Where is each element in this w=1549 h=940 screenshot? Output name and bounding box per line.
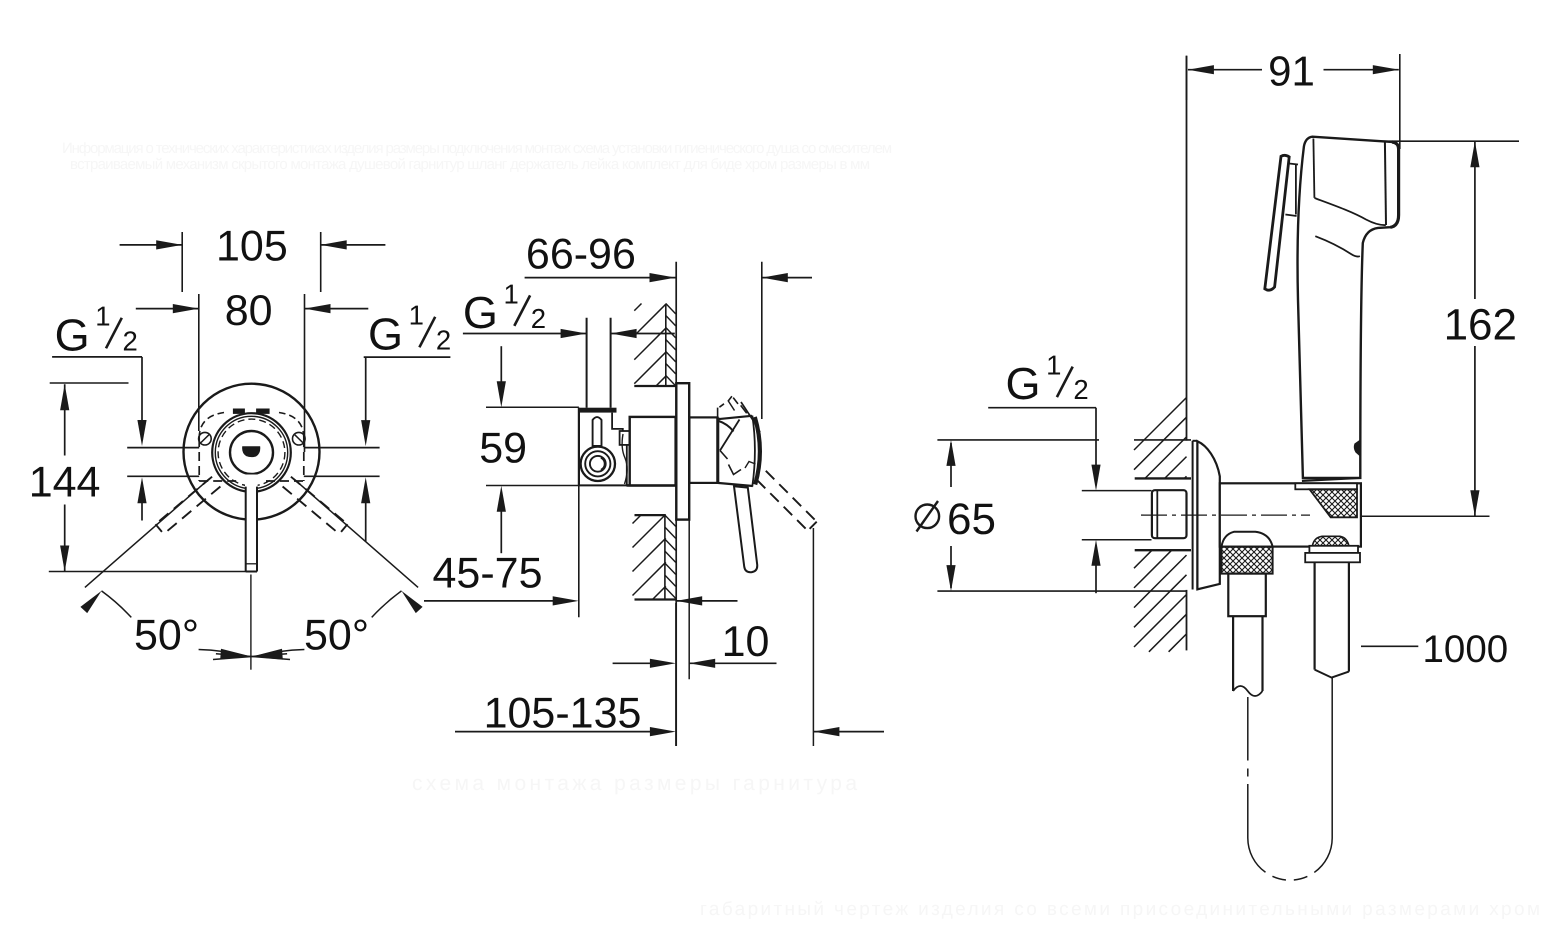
svg-text:1000: 1000 (1423, 628, 1509, 671)
svg-text:144: 144 (29, 458, 101, 506)
svg-text:45-75: 45-75 (433, 550, 543, 598)
svg-text:10: 10 (722, 618, 770, 666)
svg-text:80: 80 (225, 287, 273, 335)
svg-text:2: 2 (1073, 374, 1088, 405)
svg-text:габаритный чертеж изделия со в: габаритный чертеж изделия со всеми присо… (700, 899, 1540, 920)
svg-text:1: 1 (409, 300, 424, 331)
svg-text:1: 1 (95, 301, 110, 332)
svg-text:162: 162 (1444, 301, 1517, 350)
svg-text:59: 59 (479, 425, 527, 473)
svg-text:50°: 50° (304, 611, 369, 659)
svg-text:2: 2 (531, 303, 546, 334)
svg-text:G: G (463, 287, 498, 338)
svg-text:105: 105 (216, 223, 288, 271)
svg-text:G: G (55, 309, 90, 360)
svg-text:2: 2 (123, 325, 138, 356)
svg-text:66-96: 66-96 (526, 230, 636, 278)
svg-text:Информация о технических харак: Информация о технических характеристиках… (62, 140, 892, 157)
svg-text:встраиваемый механизм скрытого: встраиваемый механизм скрытого монтажа д… (70, 156, 870, 173)
svg-text:1: 1 (1046, 350, 1061, 381)
svg-text:G: G (1006, 358, 1041, 409)
svg-text:2: 2 (436, 324, 451, 355)
svg-text:1: 1 (504, 278, 519, 309)
svg-text:схема монтажа размеры гарнитур: схема монтажа размеры гарнитура (412, 772, 857, 795)
svg-text:91: 91 (1268, 47, 1315, 94)
svg-text:50°: 50° (134, 611, 199, 659)
svg-text:65: 65 (947, 495, 996, 544)
svg-text:105-135: 105-135 (484, 689, 642, 737)
svg-text:G: G (368, 308, 403, 359)
